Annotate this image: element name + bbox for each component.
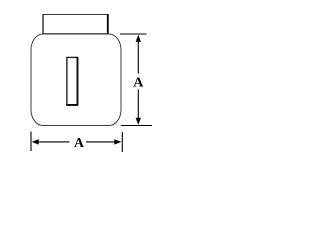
svg-text:A: A [133,76,144,91]
svg-text:A: A [74,136,85,151]
